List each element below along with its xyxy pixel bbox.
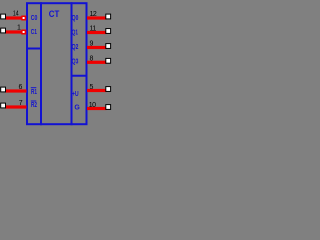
svg-text:CT: CT bbox=[49, 9, 60, 19]
wire pin 11 bbox=[87, 31, 107, 34]
svg-text:Q0: Q0 bbox=[72, 15, 79, 22]
wire pin 8 bbox=[87, 61, 107, 64]
svg-text:C0: C0 bbox=[31, 15, 38, 22]
svg-text:1: 1 bbox=[17, 24, 21, 31]
svg-text:Q1: Q1 bbox=[72, 30, 78, 37]
terminal pin 14 bbox=[1, 14, 6, 19]
wire pin 7 bbox=[5, 105, 27, 108]
terminal pin 9 bbox=[106, 44, 111, 49]
terminal pin 1 bbox=[1, 28, 6, 33]
op-amp U1 body outline (counter IC 7492 CT symbol) bbox=[27, 3, 87, 124]
svg-text:G: G bbox=[74, 105, 80, 112]
terminal pin 6 bbox=[1, 87, 6, 92]
svg-text:12: 12 bbox=[90, 11, 97, 18]
svg-text:11: 11 bbox=[90, 25, 97, 32]
wire pin 6 bbox=[5, 89, 27, 92]
svg-text:10: 10 bbox=[89, 102, 96, 109]
svg-text:14: 14 bbox=[13, 10, 19, 17]
node pin 14 connection bbox=[21, 16, 26, 21]
wire pin 9 bbox=[87, 46, 107, 49]
node pin 1 connection bbox=[21, 30, 26, 35]
wire pin 1 bbox=[5, 30, 22, 33]
svg-text:9: 9 bbox=[90, 41, 94, 48]
svg-text:R2: R2 bbox=[31, 102, 37, 109]
wire pin 12 bbox=[87, 16, 107, 19]
svg-text:8: 8 bbox=[90, 55, 94, 62]
background bbox=[0, 0, 113, 128]
svg-text:C1: C1 bbox=[31, 29, 37, 36]
svg-text:Q3: Q3 bbox=[72, 59, 79, 66]
svg-text:6: 6 bbox=[19, 84, 23, 91]
wire pin 14 bbox=[5, 16, 22, 19]
svg-text:Q2: Q2 bbox=[72, 44, 79, 51]
divider left section C/R bbox=[26, 48, 42, 50]
terminal pin 10 bbox=[106, 105, 111, 110]
svg-text:5: 5 bbox=[90, 84, 94, 91]
wire pin 10 bbox=[87, 107, 107, 110]
terminal pin 5 bbox=[106, 87, 111, 92]
svg-text:R1: R1 bbox=[31, 89, 37, 96]
terminal pin 8 bbox=[106, 58, 111, 63]
divider right field bbox=[71, 2, 73, 125]
svg-text:7: 7 bbox=[19, 100, 23, 107]
wire pin 5 bbox=[87, 89, 107, 92]
divider right section Q/power bbox=[71, 75, 88, 77]
terminal pin 12 bbox=[106, 14, 111, 19]
svg-text:+U: +U bbox=[72, 91, 79, 98]
terminal pin 11 bbox=[106, 29, 111, 34]
divider left field bbox=[40, 2, 42, 125]
terminal pin 7 bbox=[1, 103, 6, 108]
